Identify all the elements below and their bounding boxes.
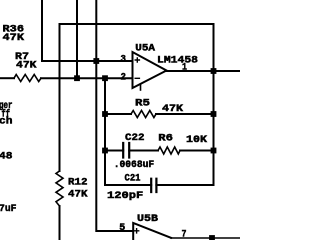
- wire C22 to R6: [129, 150, 158, 152]
- node dot pin3/feedback: [93, 58, 99, 64]
- svg-text:10K: 10K: [186, 135, 207, 146]
- svg-text:5: 5: [119, 223, 125, 234]
- capacitor C21: [151, 179, 156, 192]
- node dot R6 right: [211, 148, 217, 154]
- svg-text:7uF: 7uF: [0, 204, 17, 215]
- node dot pin2 column: [74, 75, 80, 81]
- svg-text:C21: C21: [125, 174, 141, 185]
- svg-text:C22: C22: [125, 133, 145, 144]
- svg-text:47K: 47K: [16, 61, 37, 72]
- svg-text:R12: R12: [68, 178, 88, 189]
- op-amp U5A: [133, 52, 167, 88]
- wire pin2 input to op-amp: [41, 77, 133, 79]
- resistor R5: [131, 111, 156, 118]
- svg-text:LM1458: LM1458: [157, 55, 198, 66]
- svg-text:2: 2: [121, 72, 127, 83]
- wire long left column to U5B pin5: [96, 0, 133, 231]
- resistor R6: [158, 147, 180, 154]
- svg-text:U5A: U5A: [135, 43, 155, 54]
- svg-text:120pF: 120pF: [107, 191, 143, 202]
- node dot C22 left: [102, 148, 108, 154]
- wire R36 column into pin3 wire: [42, 0, 133, 61]
- wire R12 column lower: [59, 206, 61, 240]
- node dot R5 right: [211, 111, 217, 117]
- wire pin2 input left stub: [0, 77, 14, 79]
- svg-text:.0068uF: .0068uF: [114, 160, 155, 171]
- op-amp U5B partial: [133, 223, 171, 240]
- op-amp U5A minus: [135, 77, 139, 79]
- svg-text:47K: 47K: [68, 190, 88, 201]
- svg-text:U5B: U5B: [137, 214, 158, 225]
- node dot output A: [211, 68, 217, 74]
- svg-text:1: 1: [182, 63, 187, 74]
- svg-text:ch: ch: [0, 116, 13, 128]
- wire C22 row left: [105, 150, 123, 152]
- capacitor C22: [123, 143, 129, 158]
- svg-text:47K: 47K: [3, 33, 25, 44]
- svg-text:R6: R6: [158, 134, 173, 145]
- op-amp U5B plus: [135, 229, 139, 233]
- svg-text:48: 48: [0, 152, 13, 163]
- wire right feedback column + C21 right: [156, 24, 213, 185]
- wire column to pin2 dot: [76, 0, 78, 78]
- op-amp U5A pin4 stub: [140, 84, 142, 90]
- node dot R5 left: [102, 111, 108, 117]
- wire R12 column upper: [59, 24, 61, 171]
- resistor R7: [14, 75, 41, 82]
- svg-text:7: 7: [182, 230, 187, 240]
- resistor R12: [56, 171, 63, 206]
- op-amp U5A plus: [135, 58, 139, 62]
- wire U5A output: [167, 70, 241, 72]
- wire R6 row right: [180, 150, 214, 152]
- wire U5B output: [171, 237, 240, 239]
- wire inverting feedback column: [105, 78, 151, 185]
- wire R5 row left: [105, 113, 131, 115]
- node dot output B: [209, 235, 215, 240]
- svg-text:3: 3: [121, 54, 127, 65]
- node dot pin2 feedback: [102, 75, 108, 81]
- svg-text:47K: 47K: [162, 104, 183, 115]
- svg-text:R5: R5: [135, 99, 150, 110]
- wire top feedback rail: [60, 23, 214, 25]
- wire R5 row right: [156, 113, 214, 115]
